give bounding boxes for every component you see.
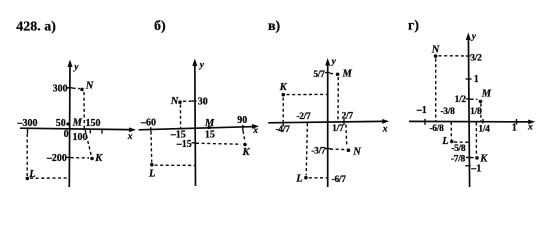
b: tick y=-15 — [192, 142, 197, 144]
v: dashed 5/7 to M — [330, 72, 335, 74]
svg-text:-4/7: -4/7 — [275, 125, 290, 135]
b: dashed N to 30 tick — [183, 100, 192, 102]
svg-text:y: y — [73, 63, 79, 73]
a: x-axis — [20, 128, 134, 130]
svg-text:г): г) — [408, 19, 419, 34]
g: dashed 1/2 tick to M — [471, 98, 478, 100]
svg-text:1: 1 — [512, 122, 517, 133]
b: tick y=30 — [192, 100, 197, 102]
g: y-axis — [468, 36, 469, 188]
svg-text:–200: –200 — [46, 153, 67, 164]
svg-text:-7/8: -7/8 — [451, 154, 466, 164]
a: point N — [80, 88, 84, 92]
svg-text:N: N — [352, 146, 361, 157]
v: point L — [304, 176, 308, 180]
b: dashed horizontal L to y-axis — [155, 164, 196, 166]
svg-text:1/4: 1/4 — [478, 124, 490, 134]
svg-text:100: 100 — [73, 132, 88, 143]
svg-text:N: N — [85, 80, 94, 91]
g: tick x=-1 — [424, 119, 426, 125]
svg-text:-3/8: -3/8 — [440, 107, 455, 117]
a: y-axis — [68, 62, 71, 187]
svg-text:428. а): 428. а) — [16, 20, 56, 35]
a: y-axis arrowhead — [68, 60, 73, 68]
svg-text:5/7: 5/7 — [313, 70, 325, 80]
v: dashed horizontal L to y-axis — [309, 177, 328, 179]
g: x-axis arrowhead — [528, 120, 535, 125]
svg-text:–1: –1 — [416, 105, 427, 116]
v: tick x=-4/7 below axis — [282, 123, 284, 127]
svg-text:M: M — [72, 118, 83, 129]
a: dashed 300 to N — [73, 87, 81, 89]
b: x-axis — [139, 127, 257, 130]
svg-text:1/7: 1/7 — [332, 124, 344, 134]
svg-text:90: 90 — [237, 115, 247, 126]
svg-text:x: x — [252, 126, 258, 136]
b: dashed vertical x=90 down to K — [243, 131, 245, 142]
a: tick y=-200 — [66, 156, 71, 158]
g: point M — [479, 100, 483, 104]
svg-text:N: N — [170, 96, 179, 107]
v: x-axis arrowhead — [382, 119, 389, 124]
a: dashed horizontal from L to y-axis — [30, 177, 70, 179]
v: y-axis arrowhead — [325, 58, 330, 66]
svg-text:–1: –1 — [470, 164, 481, 175]
svg-text:-6/7: -6/7 — [332, 175, 347, 185]
svg-text:K: K — [94, 153, 103, 164]
v: dashed horizontal K to y-axis — [287, 93, 328, 95]
svg-text:K: K — [241, 147, 250, 158]
svg-text:1/2: 1/2 — [455, 95, 467, 105]
a: dashed vertical from x-axis down to K — [85, 130, 91, 157]
v: point K — [282, 93, 286, 97]
g: point L — [450, 140, 454, 144]
g: tick y=1 — [466, 78, 472, 80]
svg-text:L: L — [28, 169, 35, 180]
svg-text:–15: –15 — [176, 139, 192, 150]
v: tick y=5/7 — [325, 72, 330, 74]
svg-text:–60: –60 — [140, 118, 156, 129]
svg-text:L: L — [441, 136, 448, 147]
b: dashed horizontal -15 to K — [196, 143, 241, 144]
g: point K — [475, 156, 479, 160]
svg-text:N: N — [431, 45, 440, 56]
a: tick/point at y=50 — [66, 122, 69, 125]
g: dashed horizontal L to y-axis — [454, 141, 468, 143]
g: dashed -7/8 to K — [471, 157, 475, 159]
svg-text:L: L — [295, 173, 302, 184]
svg-text:M: M — [481, 89, 492, 100]
svg-text:x: x — [127, 132, 133, 142]
g: x-axis — [409, 120, 533, 123]
g: tick y=3/2 — [466, 55, 471, 57]
svg-text:3/2: 3/2 — [470, 53, 482, 63]
v: dashed vertical x=-2/7 down to L — [306, 123, 307, 175]
svg-text:б): б) — [154, 19, 166, 34]
v: dashed vertical M down to x-axis — [337, 77, 339, 122]
g: y-axis arrowhead — [466, 33, 471, 41]
svg-text:x: x — [527, 122, 533, 132]
g: tick y=-7/8 — [466, 156, 471, 158]
svg-text:-2/7: -2/7 — [296, 112, 311, 122]
svg-text:30: 30 — [198, 96, 208, 107]
a: tick y=300 — [67, 87, 73, 89]
svg-text:M: M — [342, 69, 353, 80]
svg-text:–300: –300 — [17, 118, 38, 129]
b: tick x=90 — [242, 125, 244, 131]
b: x-axis arrowhead — [252, 124, 259, 129]
svg-text:L: L — [148, 169, 155, 180]
svg-text:x: x — [382, 124, 388, 134]
g: dashed vertical x=-3/8 down to L — [450, 122, 452, 139]
svg-text:150: 150 — [86, 118, 101, 129]
v: point N — [347, 148, 351, 152]
svg-text:M: M — [204, 118, 215, 129]
v: dashed vertical K down to x-axis — [282, 98, 284, 123]
svg-text:300: 300 — [53, 84, 68, 95]
g: tick x=1/4 — [482, 119, 484, 124]
svg-text:y: y — [199, 61, 205, 71]
v: point M — [336, 73, 340, 77]
b: point K — [243, 143, 247, 147]
a: point K — [90, 157, 94, 161]
svg-text:2/7: 2/7 — [342, 112, 354, 122]
svg-text:y: y — [331, 57, 337, 67]
a: dashed -200 to K — [71, 157, 90, 159]
svg-text:-5/8: -5/8 — [451, 144, 466, 154]
svg-text:50: 50 — [56, 118, 66, 129]
a: tick x=-300 — [27, 129, 29, 134]
a: dashed vertical x=-300 down to L — [26, 134, 28, 176]
g: tick y=-1 — [465, 165, 471, 167]
b: tick x=-60 — [150, 127, 152, 131]
svg-text:1: 1 — [474, 74, 479, 85]
b: y-axis arrowhead — [192, 59, 197, 67]
v: dashed vertical x=2/7 down to N — [345, 125, 348, 148]
b: point L — [150, 163, 154, 167]
g: dashed N to 3/2 tick — [439, 55, 466, 57]
a: dashed vertical from N down to x-axis — [83, 92, 85, 129]
svg-text:y: y — [471, 32, 477, 42]
a: x-axis arrowhead — [129, 127, 136, 132]
v: tick y=-3/7 — [325, 148, 330, 150]
v: x-axis — [268, 121, 386, 123]
a: tick x=150 — [101, 129, 103, 133]
a: tick x=100 — [89, 129, 91, 133]
svg-text:-3/7: -3/7 — [311, 146, 326, 156]
svg-text:1/8: 1/8 — [470, 107, 482, 117]
svg-text:-6/8: -6/8 — [429, 124, 444, 134]
v: y-axis — [327, 61, 329, 187]
g: point N — [434, 54, 438, 58]
svg-text:K: K — [279, 82, 288, 93]
b: point M — [208, 126, 211, 129]
g: tick x=1 — [516, 119, 518, 125]
svg-text:в): в) — [268, 19, 281, 34]
b: dashed vertical N down to x-axis — [179, 105, 181, 129]
g: tick y=1/2 — [466, 98, 471, 100]
b: dashed vertical x=-60 down to L — [150, 132, 153, 163]
svg-text:15: 15 — [205, 129, 215, 140]
b: point N — [178, 100, 182, 104]
v: tick x=2/7 — [343, 119, 345, 125]
a: point L — [26, 177, 30, 181]
g: dashed vertical N down to x-axis — [435, 59, 437, 122]
b: y-axis — [194, 61, 197, 186]
v: dashed horizontal -3/7 to N — [330, 148, 345, 151]
g: dashed vertical M down to x-axis — [480, 104, 482, 122]
g: dashed vertical from x-axis down to K — [475, 123, 477, 156]
svg-text:0: 0 — [64, 129, 69, 140]
